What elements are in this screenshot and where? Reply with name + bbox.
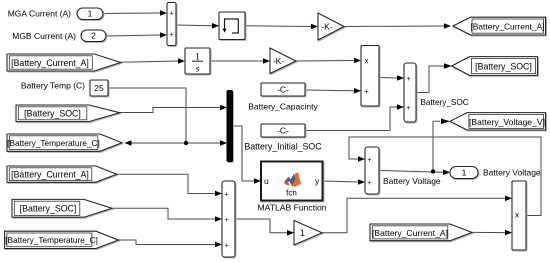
svg-text:+: + [224, 191, 228, 198]
svg-text:+: + [224, 217, 228, 224]
svg-text:-C-: -C- [277, 85, 289, 95]
svg-text:u: u [264, 176, 269, 186]
svg-text:2: 2 [91, 31, 96, 41]
svg-text:[Battery_Current_A]: [Battery_Current_A] [11, 58, 89, 68]
svg-text:1: 1 [462, 168, 467, 178]
svg-text:[Battery_SOC]: [Battery_SOC] [20, 203, 77, 213]
svg-text:25: 25 [94, 83, 104, 93]
svg-text:1: 1 [88, 9, 93, 19]
svg-text:+: + [367, 180, 371, 187]
svg-text:Battery Temp (C): Battery Temp (C) [21, 81, 85, 91]
svg-text:s: s [196, 65, 200, 75]
svg-text:Battery Voltage: Battery Voltage [483, 167, 541, 177]
svg-text:x: x [515, 211, 519, 220]
svg-text:-K-: -K- [273, 56, 285, 66]
svg-text:MGA Current (A): MGA Current (A) [8, 8, 71, 18]
svg-text:Battery_Capacinty: Battery_Capacinty [248, 102, 318, 112]
svg-text:Battery Voltage: Battery Voltage [383, 176, 441, 186]
svg-text:[Battery_Voltage_V]: [Battery_Voltage_V] [469, 117, 545, 127]
svg-text:-K-: -K- [321, 22, 333, 32]
svg-text:MGB Current (A): MGB Current (A) [12, 31, 76, 41]
svg-text:+: + [224, 242, 228, 249]
svg-text:1: 1 [300, 228, 305, 238]
svg-text:[Battery_Temperature_C]: [Battery_Temperature_C] [7, 138, 100, 148]
svg-text:+: + [367, 157, 371, 164]
svg-text:[Battery_SOC]: [Battery_SOC] [24, 108, 81, 118]
svg-text:[Battery_SOC]: [Battery_SOC] [475, 62, 532, 72]
svg-text:Battery_SOC: Battery_SOC [420, 98, 468, 107]
svg-text:Battery_Initial_SOC: Battery_Initial_SOC [244, 142, 322, 152]
svg-text:[Battery_Current_A]: [Battery_Current_A] [470, 22, 544, 32]
svg-text:+: + [364, 87, 369, 96]
svg-text:-C-: -C- [277, 126, 289, 136]
svg-text:[Battery_Current_A]: [Battery_Current_A] [372, 228, 448, 238]
svg-text:x: x [365, 57, 369, 66]
svg-text:+: + [169, 32, 173, 39]
svg-text:fcn: fcn [286, 189, 297, 198]
svg-text:+: + [406, 76, 410, 83]
svg-text:+: + [169, 11, 173, 18]
svg-text:[Battery_Temperature_C]: [Battery_Temperature_C] [5, 235, 98, 245]
svg-text:+: + [406, 105, 410, 112]
svg-text:[Battery_Current_A]: [Battery_Current_A] [11, 169, 89, 179]
svg-text:MATLAB Function: MATLAB Function [257, 203, 326, 213]
